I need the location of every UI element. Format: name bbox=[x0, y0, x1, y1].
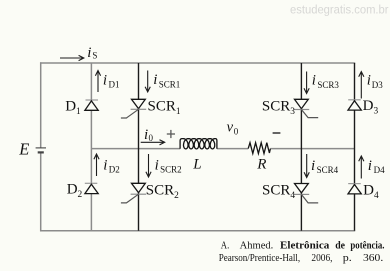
svg-text:L: L bbox=[192, 156, 201, 172]
svg-text:D3: D3 bbox=[372, 80, 383, 90]
svg-text:SCR4: SCR4 bbox=[262, 183, 295, 202]
svg-text:estudegratis.com.br: estudegratis.com.br bbox=[290, 3, 389, 17]
svg-text:0: 0 bbox=[149, 133, 154, 143]
svg-text:D4: D4 bbox=[374, 165, 385, 175]
svg-text:SCR4: SCR4 bbox=[317, 165, 339, 175]
svg-text:de: de bbox=[335, 241, 345, 252]
svg-text:i: i bbox=[368, 158, 372, 174]
svg-text:E: E bbox=[18, 139, 29, 158]
svg-text:Pearson/Prentice-Hall,: Pearson/Prentice-Hall, bbox=[219, 253, 301, 264]
svg-text:R: R bbox=[256, 156, 266, 172]
svg-text:i: i bbox=[155, 157, 159, 173]
svg-text:2006,: 2006, bbox=[311, 253, 332, 264]
svg-text:i: i bbox=[103, 157, 107, 173]
svg-text:D1: D1 bbox=[109, 79, 120, 89]
svg-text:SCR2: SCR2 bbox=[146, 183, 179, 202]
svg-text:S: S bbox=[92, 51, 97, 61]
svg-text:v: v bbox=[227, 119, 234, 135]
svg-text:potência.: potência. bbox=[350, 241, 385, 252]
svg-text:SCR1: SCR1 bbox=[159, 79, 181, 89]
svg-text:SCR3: SCR3 bbox=[262, 99, 295, 118]
svg-text:SCR2: SCR2 bbox=[160, 164, 182, 174]
svg-text:SCR3: SCR3 bbox=[317, 80, 339, 90]
svg-text:p.: p. bbox=[343, 253, 352, 264]
svg-text:i: i bbox=[87, 45, 91, 61]
svg-text:0: 0 bbox=[234, 127, 239, 137]
svg-text:i: i bbox=[367, 72, 371, 88]
svg-text:i: i bbox=[103, 72, 107, 88]
svg-text:i: i bbox=[312, 72, 316, 88]
svg-text:D2: D2 bbox=[109, 164, 120, 174]
svg-text:SCR1: SCR1 bbox=[148, 99, 181, 118]
svg-text:Eletrônica: Eletrônica bbox=[280, 241, 329, 252]
svg-text:i: i bbox=[153, 72, 157, 88]
svg-text:i: i bbox=[311, 158, 315, 174]
svg-text:A.: A. bbox=[221, 241, 230, 252]
svg-text:360.: 360. bbox=[363, 253, 383, 264]
svg-text:Ahmed.: Ahmed. bbox=[240, 241, 274, 252]
